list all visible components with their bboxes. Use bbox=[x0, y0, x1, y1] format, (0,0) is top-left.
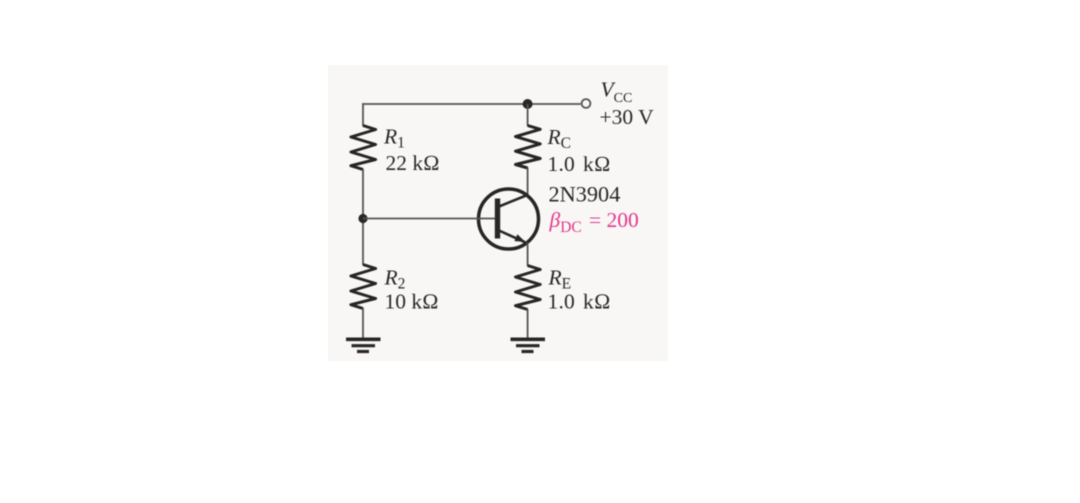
node base junction dot bbox=[358, 214, 367, 223]
wire left rail upper bbox=[362, 103, 364, 126]
wire emitter lead bbox=[527, 243, 529, 267]
transistor Q1 circle bbox=[479, 189, 539, 249]
ground left bbox=[346, 339, 381, 351]
svg-text:10 kΩ: 10 kΩ bbox=[385, 290, 439, 314]
wire left rail lower bbox=[362, 308, 364, 338]
ground right bbox=[511, 339, 546, 351]
wire right rail upper bbox=[527, 104, 529, 126]
Vcc terminal circle bbox=[582, 99, 591, 108]
transistor base bar bbox=[495, 199, 500, 239]
wire left rail middle bbox=[362, 169, 364, 265]
svg-text:2N3904: 2N3904 bbox=[549, 182, 621, 207]
wire emitter rail lower bbox=[527, 309, 529, 338]
resistor R2 bbox=[351, 265, 376, 309]
transistor emitter stroke with arrow bbox=[499, 231, 525, 243]
resistor RC bbox=[516, 126, 541, 169]
svg-text:1.0 kΩ: 1.0 kΩ bbox=[548, 152, 611, 176]
svg-text:22 kΩ: 22 kΩ bbox=[386, 151, 440, 175]
transistor collector stroke bbox=[499, 195, 527, 207]
svg-text:+30 V: +30 V bbox=[600, 105, 655, 129]
scan background panel bbox=[328, 65, 668, 361]
wire top horizontal rail bbox=[363, 103, 581, 105]
resistor R1 bbox=[351, 126, 376, 170]
node Vcc junction dot bbox=[523, 99, 533, 109]
wire collector lead bbox=[527, 168, 529, 196]
resistor RE bbox=[516, 266, 541, 310]
svg-text:1.0 kΩ: 1.0 kΩ bbox=[548, 290, 611, 314]
svg-text:= 200: = 200 bbox=[589, 208, 639, 232]
wire base lead bbox=[363, 218, 495, 220]
